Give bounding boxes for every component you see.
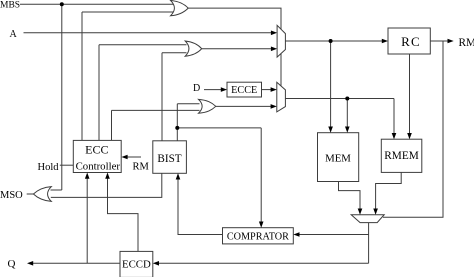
svg-text:RMEM: RMEM	[384, 150, 419, 162]
wire bottom to ECCD right	[158, 262, 368, 264]
wire ECC top pin1 vertical x=82	[81, 12, 83, 140]
svg-text:ECC: ECC	[85, 142, 108, 156]
wire ECCE output to mux2	[262, 89, 272, 91]
svg-text:D: D	[193, 83, 200, 94]
wire select between mux1 and mux2	[280, 53, 282, 86]
svg-text:ECCE: ECCE	[231, 85, 257, 96]
wire A horizontal	[24, 32, 272, 34]
wire BIST top pin1 vertical x=162	[161, 53, 163, 141]
arrowhead RM output	[448, 39, 454, 44]
wire y=53 to OR2 lower input	[162, 52, 187, 54]
svg-text:ECCD: ECCD	[122, 258, 151, 270]
arrowhead into RMEM right	[407, 133, 412, 139]
svg-text:A: A	[10, 29, 18, 40]
wire y=12 to OR1 lower input	[82, 11, 175, 13]
svg-text:COMPRATOR: COMPRATOR	[227, 232, 289, 243]
arrowhead D to ECCE	[221, 87, 227, 92]
arrowhead MEM into mux3	[358, 209, 363, 215]
arrowhead into MEM left	[328, 127, 333, 133]
arrowhead ECCE to mux2	[271, 87, 277, 92]
wire RMEM bottom to mux3	[376, 172, 402, 209]
arrowhead into ECCD right	[153, 261, 159, 266]
wire mux1 output to RC	[285, 40, 382, 42]
wire MBS/Hold vertical x=62	[61, 4, 63, 190]
svg-text:Hold: Hold	[38, 162, 60, 173]
block BIST	[153, 141, 187, 174]
or-gate G4 (MSO, points left)	[33, 187, 51, 202]
wire down to RMEM left	[393, 99, 395, 135]
or-gate G3	[199, 99, 216, 113]
arrowhead into COMPRATOR top	[259, 222, 264, 228]
wire ECCD top to ECC pin2	[108, 178, 139, 251]
mux M2	[277, 82, 286, 112]
junction mux2 out	[345, 97, 349, 101]
wire D stub to ECCE	[204, 89, 222, 91]
svg-text:RC: RC	[401, 34, 421, 49]
block ECCE	[227, 82, 262, 97]
junction node BIST/OR3	[175, 126, 179, 130]
wire down to COMPRATOR top	[260, 128, 262, 223]
wire mux3 output down	[368, 223, 370, 264]
block ECCD	[120, 251, 153, 277]
svg-text:MEM: MEM	[325, 153, 351, 165]
wire MEM bottom to mux3	[339, 182, 361, 210]
wire Hold to ECC left	[60, 164, 74, 166]
wire node to comparator column	[177, 127, 261, 129]
wire Q output	[33, 262, 121, 264]
wire OR1 output to select	[188, 8, 281, 29]
wire OR3 output to mux2	[216, 105, 271, 107]
wire mux2 output	[285, 98, 394, 100]
block COMPRATOR	[223, 228, 294, 244]
svg-text:MBS: MBS	[0, 0, 20, 10]
wire branch down to MEM right	[346, 99, 348, 128]
block MEM	[318, 133, 359, 182]
arrowhead into BIST bottom	[176, 173, 181, 179]
wire y=110 to OR3 lower input	[112, 109, 200, 111]
wire Hold down to MSO gate upper input	[51, 189, 62, 191]
arrowhead into COMPRATOR right	[293, 232, 299, 237]
arrowhead RMEM into mux3	[373, 209, 378, 215]
svg-text:MSO: MSO	[0, 190, 23, 201]
arrowhead into ECC bottom pin1	[85, 173, 90, 179]
wire BIST top pin2 vertical x=177	[176, 104, 178, 141]
wire feedback vertical x=443	[383, 41, 443, 217]
arrowhead into RMEM left	[392, 133, 397, 139]
block ECC Controller	[73, 140, 121, 172]
wire y=45 to OR2 upper input	[99, 44, 187, 46]
wire Q feedback up to ECC pin1	[86, 178, 88, 263]
block RC	[388, 28, 430, 54]
wire ECC top pin2 vertical x=99	[98, 45, 100, 141]
arrowhead Q output	[27, 261, 33, 266]
arrowhead RM into ECC right	[121, 155, 127, 160]
block RMEM	[381, 139, 422, 172]
svg-text:RM: RM	[459, 37, 474, 49]
junction MBS	[60, 2, 64, 6]
arrowhead A to mux1	[271, 31, 277, 36]
mux M3 (points down)	[351, 215, 384, 223]
wire OR2 output to mux1	[202, 48, 272, 50]
wire RC bottom to RMEM right	[409, 54, 411, 134]
arrowhead OR2 to mux1	[271, 47, 277, 52]
svg-text:Controller: Controller	[76, 160, 121, 172]
wire COMPRATOR left up to BIST	[178, 179, 223, 235]
wire ECC top pin3 vertical x=111.5	[111, 110, 113, 140]
wire branch down to MEM left	[330, 41, 332, 128]
wire OR3 upper input from node	[177, 103, 199, 105]
svg-text:Q: Q	[8, 258, 16, 270]
svg-text:RM: RM	[133, 161, 150, 172]
arrowhead OR3 to mux2	[271, 104, 277, 109]
wire MSO gate output stub	[27, 193, 34, 195]
svg-text:BIST: BIST	[157, 153, 181, 165]
arrowhead into ECC bottom pin2	[105, 173, 110, 179]
wire BIST bottom to MSO gate lower input	[51, 173, 162, 197]
wire RM stub into ECC right	[127, 156, 141, 158]
wire branch to COMPRATOR right	[299, 234, 369, 236]
arrowhead into MEM right	[345, 127, 350, 133]
arrowhead into RC	[382, 39, 388, 44]
wire RC output to RM	[430, 40, 448, 42]
or-gate G2	[185, 41, 202, 56]
junction mux1 out	[329, 39, 333, 43]
mux M1	[277, 25, 285, 57]
or-gate G1 (MBS)	[171, 0, 189, 15]
wire MBS horizontal	[20, 3, 175, 5]
